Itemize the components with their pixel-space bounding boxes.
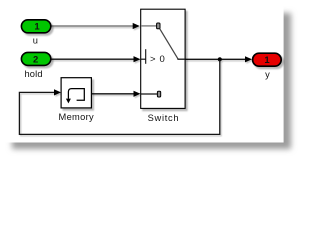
arrowhead into switch bottom input [134, 91, 141, 97]
white card [0, 0, 284, 143]
svg-text:Switch: Switch [148, 113, 179, 123]
card drop shadow [12, 13, 291, 149]
wire hold to switch [51, 58, 135, 60]
svg-text:1: 1 [264, 55, 270, 66]
inport block u [21, 20, 50, 33]
svg-text:y: y [265, 69, 270, 79]
switch output stub [177, 58, 185, 60]
svg-text:2: 2 [33, 55, 38, 66]
switch top input stub (gray) [141, 25, 157, 27]
arrowhead into switch middle input [134, 56, 141, 62]
arrowhead into memory [54, 89, 61, 95]
arrowhead into switch top input [133, 23, 140, 29]
outport block y [253, 53, 282, 66]
svg-text:1: 1 [34, 22, 40, 33]
page background [0, 0, 315, 160]
memory icon arrowhead [66, 99, 71, 104]
switch criteria bar [145, 49, 147, 64]
arrowhead into outport [245, 56, 252, 62]
svg-text:> 0: > 0 [150, 54, 165, 65]
svg-text:u: u [33, 35, 38, 45]
switch block [141, 9, 185, 108]
svg-text:hold: hold [25, 69, 43, 79]
inport block hold [21, 52, 50, 65]
switch criteria stub [141, 58, 146, 60]
junction dot [218, 57, 222, 61]
memory block [61, 78, 91, 108]
switch bottom input stub [141, 93, 157, 95]
feedback wire [19, 60, 219, 134]
switch top contact [157, 23, 160, 29]
wire u to switch (gray) [51, 25, 134, 27]
svg-text:Memory: Memory [59, 112, 95, 122]
switch bottom contact [157, 91, 160, 97]
memory icon loop [68, 89, 84, 101]
switch diagonal arm [160, 29, 178, 59]
wire memory to switch [92, 93, 135, 95]
wire switch to outport [185, 58, 246, 60]
